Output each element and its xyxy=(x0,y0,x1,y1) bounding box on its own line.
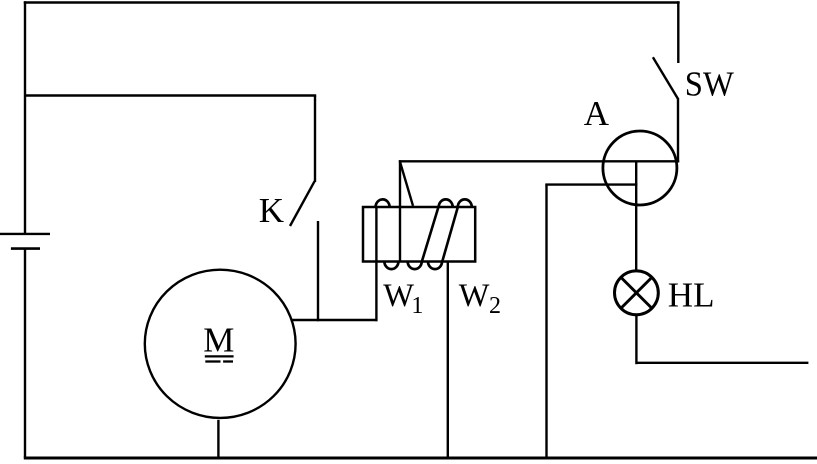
wire left bus lower xyxy=(24,249,26,458)
svg-text:1: 1 xyxy=(411,293,423,319)
motor DC symbol dashed bar xyxy=(205,360,220,362)
wire W2 top lead to ammeter xyxy=(545,183,637,185)
switch SW blade xyxy=(653,57,678,99)
wire coil primary vertical xyxy=(399,160,401,261)
switch SW top lead xyxy=(677,1,679,63)
coil winding diagonal 2 xyxy=(442,207,458,261)
lamp HL cross xyxy=(621,278,651,308)
svg-text:A: A xyxy=(584,94,610,133)
coil top bump 3 xyxy=(458,199,472,207)
wire left bus upper xyxy=(24,1,26,234)
wire W1 left lead xyxy=(375,207,377,321)
wire lamp bottom lead xyxy=(635,316,637,364)
wire K lower lead xyxy=(317,221,319,321)
svg-text:M: M xyxy=(203,321,234,360)
lamp HL circle xyxy=(615,271,659,315)
switch K blade xyxy=(290,181,315,226)
coil tap diagonal xyxy=(400,163,413,206)
coil bottom bump 2 xyxy=(408,262,422,270)
wire W2 top lead vertical xyxy=(545,185,547,458)
coil bottom bump 1 xyxy=(384,262,398,270)
wire lamp to right end xyxy=(636,362,808,364)
motor DC symbol solid bar xyxy=(205,355,234,357)
wire ammeter vertical to lamp xyxy=(635,161,637,270)
svg-text:2: 2 xyxy=(489,293,501,319)
wire bottom bus xyxy=(24,457,817,460)
coil bottom bump 3 xyxy=(428,262,442,270)
svg-text:HL: HL xyxy=(668,276,715,315)
coil top bump 1 xyxy=(376,199,390,207)
wire motor to W1 lead xyxy=(291,319,377,321)
svg-text:SW: SW xyxy=(685,64,734,103)
coil core box xyxy=(363,207,475,262)
wire W2 right lead xyxy=(447,262,449,459)
wire coil tap to ammeter and SW (chord) xyxy=(399,160,679,162)
wire branch battery to K xyxy=(25,94,316,96)
motor M circle xyxy=(145,270,296,418)
coil winding diagonal 1 xyxy=(422,207,439,261)
battery short plate xyxy=(11,247,40,250)
svg-text:W: W xyxy=(459,278,490,314)
switch SW bottom lead xyxy=(677,98,679,163)
battery long plate xyxy=(0,233,50,235)
wire motor bottom lead xyxy=(217,420,219,458)
svg-text:W: W xyxy=(383,278,414,314)
coil top bump 2 xyxy=(439,199,453,207)
wire K upper lead xyxy=(314,96,316,183)
svg-text:K: K xyxy=(259,191,284,230)
wire top bus xyxy=(24,1,680,3)
ammeter A circle xyxy=(603,131,677,205)
